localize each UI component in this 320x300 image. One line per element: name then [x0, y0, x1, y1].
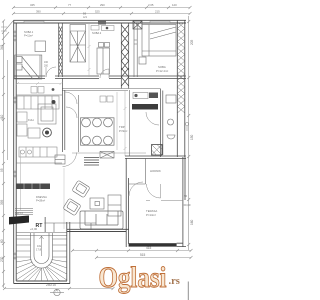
counter shelf above	[133, 93, 148, 99]
bedroom3 label	[156, 65, 168, 73]
window tag text top	[83, 12, 87, 20]
left dimension texts	[0, 44, 4, 262]
stair treads left flight	[16, 239, 36, 280]
dark appliance right	[149, 93, 158, 99]
kitchen cabinets left column	[17, 112, 40, 138]
living room armchair 1	[72, 180, 90, 198]
living room armchair 2	[63, 198, 81, 216]
dining room label	[119, 125, 127, 133]
svg-text:2,05: 2,05	[148, 3, 154, 7]
kitchen sink circle	[43, 128, 52, 137]
bedroom2 door arc	[100, 69, 109, 78]
svg-text:SOBA 1: SOBA 1	[24, 30, 34, 34]
top wall	[14, 20, 187, 23]
svg-text:.rs: .rs	[169, 276, 180, 287]
svg-text:515: 515	[140, 253, 146, 257]
kitchen unit (stove/fridge)	[38, 104, 56, 124]
terrace bottom wall dark	[129, 243, 177, 246]
radiator stripes	[15, 209, 33, 215]
svg-text:HODNIK: HODNIK	[150, 169, 161, 173]
stair inner U	[31, 233, 53, 268]
corridor dark dot	[52, 88, 55, 91]
stair landing texts	[36, 244, 42, 252]
hall bottom wall	[146, 200, 183, 202]
bedroom1 stool	[35, 41, 46, 52]
section marker A	[50, 289, 64, 295]
main horizontal wall below bedrooms	[14, 76, 186, 78]
dining chairs bottom row	[82, 136, 113, 145]
svg-text:60: 60	[0, 239, 4, 243]
svg-text:Oglasi: Oglasi	[99, 261, 167, 294]
hall label	[150, 169, 161, 173]
svg-text:215: 215	[155, 10, 160, 14]
stair treads bottom fan	[22, 268, 48, 282]
svg-text:+0,00: +0,00	[30, 227, 38, 231]
radiator dark lines	[84, 158, 99, 166]
svg-text:A/1: A/1	[83, 15, 87, 19]
stair box right wall	[67, 222, 70, 284]
dark kitchen counter right	[132, 104, 158, 110]
level text right	[184, 194, 191, 207]
bathroom door arc	[63, 153, 77, 167]
terrace door arc	[129, 182, 143, 196]
top dimension line 1	[12, 6, 192, 9]
svg-text:205: 205	[190, 39, 194, 45]
left dimension line	[2, 20, 8, 289]
top wall window bedroom1	[24, 21, 44, 23]
living room tiny label	[36, 195, 47, 202]
bedroom1 label	[24, 30, 34, 37]
right dimension line	[187, 16, 190, 250]
dining table	[81, 118, 115, 145]
svg-text:160: 160	[190, 219, 194, 225]
stair treads right flight	[45, 239, 67, 281]
interior wall bedroom1/2 divider (hatched)	[59, 23, 63, 77]
svg-text:P=9m²: P=9m²	[119, 129, 127, 133]
wc room wall	[161, 89, 163, 158]
left wall hatch marks	[14, 30, 17, 260]
terrace label	[146, 209, 157, 217]
corridor door arc 1	[65, 92, 77, 104]
svg-text:410: 410	[0, 114, 4, 120]
sideboard right of bathroom	[100, 152, 114, 159]
svg-text:525: 525	[95, 10, 100, 14]
svg-text:P=11m²: P=11m²	[24, 33, 33, 37]
hall door arc	[147, 184, 161, 198]
hall interior walls	[129, 158, 146, 184]
corridor small cabinets	[31, 87, 113, 103]
wc door arc	[146, 112, 159, 125]
right wall hatch pattern	[177, 22, 185, 113]
interior dim line dining	[124, 90, 127, 156]
bedroom2 closet lower	[97, 43, 110, 75]
coffee table	[90, 198, 104, 209]
svg-text:345: 345	[0, 44, 4, 50]
kitchen cabinets row upper	[17, 96, 59, 109]
svg-text:16x: 16x	[37, 244, 42, 248]
top dimension line 2	[12, 12, 192, 15]
watermark Oglasi	[99, 261, 180, 294]
chimney hatched block	[152, 145, 163, 156]
svg-text:17,8: 17,8	[36, 248, 42, 252]
kitchen label	[28, 118, 34, 122]
svg-text:DNEVNA: DNEVNA	[36, 195, 47, 199]
living/terrace wall	[126, 158, 128, 247]
dark corner block top-right interior	[133, 21, 142, 29]
narrow duct wall right of bedroom2 divider	[134, 23, 137, 77]
kitchen dark dot	[52, 100, 56, 104]
kitchen lower band with sink circles	[19, 147, 57, 157]
svg-text:90: 90	[184, 194, 188, 198]
interior dim line bedrooms	[88, 23, 91, 77]
top wall window bedroom3	[150, 21, 170, 23]
window marker right	[185, 122, 188, 131]
wc fixtures	[166, 95, 176, 139]
corridor vertical wall	[63, 78, 65, 152]
right dimension texts	[190, 39, 194, 225]
svg-text:120: 120	[172, 3, 177, 7]
bedroom2 label	[92, 31, 102, 35]
corridor dim line below wall	[16, 82, 117, 150]
bedroom3 bed	[142, 25, 176, 57]
bottom dimension line (stair block)	[3, 287, 115, 290]
corridor door arc 2	[66, 107, 77, 118]
svg-text:415: 415	[146, 246, 152, 250]
svg-text:P=14m²: P=14m²	[146, 213, 156, 217]
tv bench	[108, 195, 121, 216]
svg-text:77: 77	[68, 3, 72, 7]
bedroom1 bed	[15, 55, 42, 79]
top dimension texts	[30, 3, 177, 14]
wall between stair and living bottom	[44, 217, 96, 232]
svg-text:95: 95	[0, 168, 4, 172]
svg-text:±0,00: ±0,00	[184, 203, 191, 207]
dark sideboard band	[16, 184, 50, 190]
svg-text:150: 150	[190, 134, 194, 140]
svg-text:345: 345	[30, 3, 35, 7]
stair box top line	[16, 233, 67, 236]
stair up arrow	[40, 236, 44, 256]
svg-text:SOBA 2: SOBA 2	[92, 31, 102, 35]
svg-text:270: 270	[0, 256, 4, 262]
bedroom1 door arc	[46, 67, 56, 77]
dark wedge arrow	[9, 216, 29, 225]
dining bottom line	[72, 152, 146, 154]
left wall	[14, 20, 17, 284]
svg-text:200: 200	[44, 65, 49, 68]
sofa	[80, 211, 123, 229]
interior wall bedroom2/3 divider (hatched)	[121, 23, 128, 89]
watermark separator line	[187, 282, 189, 300]
stair box bottom wall	[14, 281, 70, 284]
bottom dimension lines (terrace side)	[71, 249, 193, 259]
interior dim chain left rooms	[21, 150, 45, 233]
svg-text:P=12.4m²: P=12.4m²	[156, 69, 168, 73]
svg-text:KUH.: KUH.	[28, 118, 34, 122]
dining chairs top row	[82, 118, 113, 127]
secondary horizontal wall (corridor)	[62, 89, 160, 91]
svg-text:290: 290	[100, 3, 105, 7]
svg-text:395: 395	[0, 199, 4, 205]
top-left corner leader	[1, 21, 13, 40]
living room bottom wall	[67, 229, 129, 231]
svg-text:390: 390	[36, 10, 41, 14]
kitchen bottom wall	[16, 162, 62, 164]
bedroom3 nightstand	[139, 57, 146, 64]
kitchen top wall line	[16, 94, 62, 96]
right wall hatched	[177, 20, 185, 157]
bed dimension text	[44, 61, 49, 68]
svg-text:B6: B6	[83, 12, 87, 16]
dining right wall	[129, 90, 131, 156]
hall top wall	[125, 156, 186, 158]
window sill rects below top wall	[91, 26, 114, 31]
carpet edge line	[63, 168, 65, 229]
bedroom2 wardrobe	[70, 25, 86, 63]
right wall lower (hall + terrace)	[183, 157, 185, 247]
bathroom block small rect	[55, 155, 65, 164]
flue block on top wall	[98, 20, 106, 25]
svg-text:P=28m²: P=28m²	[36, 198, 45, 202]
corridor vertical wall 2	[78, 95, 80, 152]
